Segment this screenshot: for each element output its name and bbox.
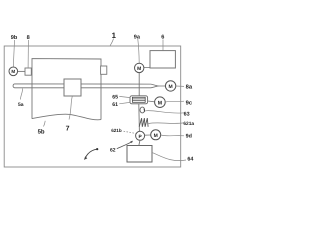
svg-text:63: 63: [184, 112, 190, 118]
svg-text:M: M: [11, 69, 15, 74]
svg-text:61: 61: [112, 102, 118, 108]
svg-text:1: 1: [112, 31, 117, 40]
svg-text:621b: 621b: [111, 128, 122, 133]
svg-text:M: M: [169, 84, 173, 90]
svg-text:7: 7: [66, 125, 70, 132]
svg-text:62: 62: [110, 147, 116, 153]
svg-text:621a: 621a: [183, 121, 194, 127]
svg-text:64: 64: [187, 157, 193, 163]
svg-text:8a: 8a: [186, 84, 193, 91]
svg-text:65: 65: [112, 95, 118, 101]
svg-text:9c: 9c: [186, 99, 193, 106]
svg-text:9a: 9a: [134, 34, 141, 40]
svg-text:M: M: [158, 100, 162, 106]
svg-text:5b: 5b: [38, 129, 45, 136]
svg-text:9d: 9d: [186, 133, 192, 139]
svg-text:5a: 5a: [18, 102, 24, 108]
svg-text:M: M: [154, 133, 158, 139]
svg-text:M: M: [137, 66, 141, 72]
